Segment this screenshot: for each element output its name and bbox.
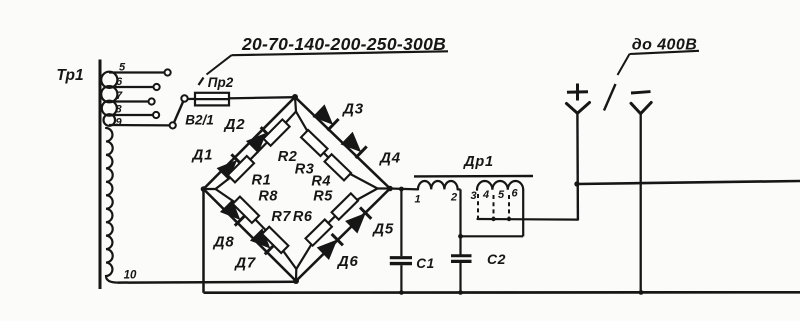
label R5 <box>313 188 333 204</box>
label D3 <box>341 100 364 117</box>
capacitor C1 upper lead <box>400 189 402 256</box>
diode D8 <box>221 201 246 226</box>
svg-text:2: 2 <box>450 192 457 204</box>
plus output terminal <box>567 103 590 114</box>
svg-text:Пр2: Пр2 <box>208 75 234 90</box>
wire bridge edge left-top (anodes D1 D2) <box>204 97 296 189</box>
svg-text:3: 3 <box>470 190 476 202</box>
transformer tap 9 terminal <box>170 122 176 128</box>
transformer tap 7 lead <box>109 100 149 102</box>
resistor R3 <box>301 130 328 156</box>
choke Dr1 winding 1-2 <box>418 181 458 189</box>
transformer T1 lower winding <box>106 128 118 283</box>
transformer tap 9 lead <box>109 124 170 127</box>
junction bridge bottom node <box>293 278 299 284</box>
minus sign <box>631 92 651 93</box>
label do400V pointer <box>618 54 630 75</box>
pin number 6 <box>116 76 123 88</box>
svg-text:5: 5 <box>498 189 505 201</box>
label D7 <box>233 254 256 271</box>
pin number 1 <box>414 194 420 206</box>
svg-text:R6: R6 <box>293 209 313 225</box>
resistor R2 <box>263 119 289 145</box>
wire inner branch top-right (R3 R4) <box>296 112 390 189</box>
diode D1 <box>218 154 243 179</box>
label R4 <box>311 174 331 190</box>
capacitor C2 plates <box>451 256 472 262</box>
label D8 <box>212 234 235 251</box>
pin number 5 <box>119 62 126 74</box>
choke Dr1 winding 3-6 <box>477 181 523 190</box>
transformer tap 6 terminal <box>154 84 160 90</box>
label underline <box>232 51 449 55</box>
label do400V underline <box>630 51 700 54</box>
diode D7 <box>251 229 276 254</box>
label Pr2 <box>208 75 234 90</box>
transformer tap 5 terminal <box>165 69 171 75</box>
svg-text:8: 8 <box>115 104 122 116</box>
wire minus terminal to bottom rail <box>640 114 642 293</box>
capacitor C1 lower lead <box>400 265 402 292</box>
junction tap4 on selector line <box>491 217 495 221</box>
svg-text:4: 4 <box>482 189 489 201</box>
label V2/1 <box>185 113 214 128</box>
junction minus on bottom rail <box>639 290 644 295</box>
svg-text:Д2: Д2 <box>223 116 246 133</box>
label R2 <box>278 149 298 165</box>
svg-text:R4: R4 <box>311 174 331 190</box>
pin number 2 <box>450 192 457 204</box>
pin number 7 <box>116 90 123 102</box>
wire minus rail (bottom) <box>204 291 800 294</box>
choke Dr1 core bar <box>414 175 533 178</box>
svg-text:Д4: Д4 <box>378 150 401 167</box>
diode D5 <box>346 207 371 232</box>
wire inner branch left-top (R1 R2) <box>204 97 297 189</box>
wire inner branch left-bottom (R7 R8) <box>216 189 297 281</box>
transformer tap 8 lead <box>109 114 153 116</box>
switch V2/1 arm <box>174 101 183 122</box>
pin number 4 <box>482 189 489 201</box>
label C1 <box>416 256 434 271</box>
label Dr1 <box>462 154 494 170</box>
label do 400V <box>632 36 698 53</box>
svg-text:1: 1 <box>414 194 420 206</box>
svg-text:R1: R1 <box>252 172 272 188</box>
label D5 <box>371 220 394 237</box>
wire plus rail <box>577 181 800 184</box>
fuse Pr2 <box>195 93 229 106</box>
wire inner branch bottom-right (R5 R6) <box>296 189 377 270</box>
wire tap selector line <box>478 218 579 221</box>
pin number 5 choke <box>498 189 505 201</box>
wire bridge edge bottom-right (D5 D6) <box>296 189 390 282</box>
minus output terminal <box>631 103 651 114</box>
junction terminal2 jumper <box>458 234 463 239</box>
junction C2 bottom <box>458 290 463 295</box>
svg-text:В2/1: В2/1 <box>185 113 214 128</box>
label 20-70-140-200-250-300V <box>241 34 446 54</box>
junction tap5 on selector line <box>507 217 511 221</box>
wire bridge edge left-bottom (D7 D8) <box>204 189 297 281</box>
resistor R6 <box>305 220 331 246</box>
diode D3 <box>313 105 338 130</box>
capacitor C1 plates <box>390 258 412 264</box>
label R6 <box>293 209 313 225</box>
svg-text:6: 6 <box>511 188 518 200</box>
transformer T1 upper tapped winding <box>101 72 117 126</box>
tap 4 dashed lead <box>493 195 495 218</box>
resistor R8 <box>233 197 259 223</box>
diode D4 <box>341 133 366 158</box>
svg-text:С1: С1 <box>416 256 434 271</box>
svg-text:7: 7 <box>116 90 123 102</box>
svg-text:9: 9 <box>115 117 122 129</box>
junction C1 bottom <box>399 290 404 295</box>
label D1 <box>191 147 214 164</box>
label R7 <box>271 209 291 225</box>
label do400V pointer slash <box>604 84 616 111</box>
wire tap6 down lead <box>522 190 524 237</box>
wire selector to plus terminal riser <box>576 113 579 219</box>
pin number 3 <box>470 190 476 202</box>
transformer tap 6 lead <box>109 86 154 88</box>
label D4 <box>378 150 401 167</box>
transformer tap 5 lead <box>109 71 165 73</box>
junction bridge top node <box>292 94 298 100</box>
pin number 8 <box>115 104 122 116</box>
transformer tap 7 terminal <box>149 98 155 104</box>
wire terminal2 down <box>459 189 461 255</box>
wire bridge left node to minus rail <box>202 189 205 293</box>
svg-text:Тр1: Тр1 <box>56 67 83 84</box>
resistor R1 <box>228 156 254 182</box>
svg-text:6: 6 <box>116 76 123 88</box>
label D2 <box>223 116 246 133</box>
svg-text:R8: R8 <box>258 188 278 204</box>
label R3 <box>295 161 315 177</box>
label Tr1 <box>56 67 83 84</box>
label D6 <box>336 253 359 270</box>
svg-text:5: 5 <box>119 62 126 74</box>
junction C1 top <box>399 187 404 192</box>
pin number 10 <box>124 270 137 282</box>
junction plus rail <box>574 181 579 186</box>
wire transformer pin10 to bridge bottom node <box>118 281 296 284</box>
pin number 9 <box>115 117 122 129</box>
junction bridge right node <box>387 186 393 192</box>
diode D2 <box>247 127 272 152</box>
svg-text:Д6: Д6 <box>336 253 359 270</box>
wire winding to terminal2 <box>458 188 461 190</box>
label R1 <box>252 172 272 188</box>
label C2 <box>487 251 506 267</box>
wire bridge edge top-right (D3 D4) <box>295 97 390 189</box>
svg-text:Д8: Д8 <box>212 234 235 251</box>
wire bridge right node to choke <box>390 187 418 190</box>
plus sign <box>567 84 588 101</box>
switch V2/1 common terminal <box>181 95 187 101</box>
transformer tap 8 terminal <box>153 112 159 118</box>
label R8 <box>258 188 278 204</box>
svg-text:С2: С2 <box>487 251 506 267</box>
svg-text:R7: R7 <box>271 209 291 225</box>
svg-text:Др1: Др1 <box>462 154 494 170</box>
capacitor C2 lower lead <box>459 261 461 292</box>
svg-text:Д1: Д1 <box>191 147 214 164</box>
svg-text:Д3: Д3 <box>341 100 364 117</box>
resistor R4 <box>325 154 352 180</box>
diode D6 <box>318 234 343 259</box>
pin number 6 choke <box>511 188 518 200</box>
tap 3 dashed lead <box>477 194 479 218</box>
svg-text:Д7: Д7 <box>233 254 256 271</box>
junction bridge left node <box>201 186 207 192</box>
label pointer tick <box>199 78 204 86</box>
svg-text:Д5: Д5 <box>371 220 394 237</box>
wire terminal2-to-tap6 jumper <box>461 235 524 237</box>
wire switch to bridge top node <box>188 97 295 99</box>
resistor R7 <box>262 227 288 253</box>
svg-text:10: 10 <box>124 270 137 282</box>
svg-text:R5: R5 <box>313 188 333 204</box>
transformer T1 core <box>99 60 102 290</box>
label pointer line <box>207 55 232 74</box>
resistor R5 <box>332 193 358 219</box>
tap 5 dashed lead <box>508 195 510 218</box>
